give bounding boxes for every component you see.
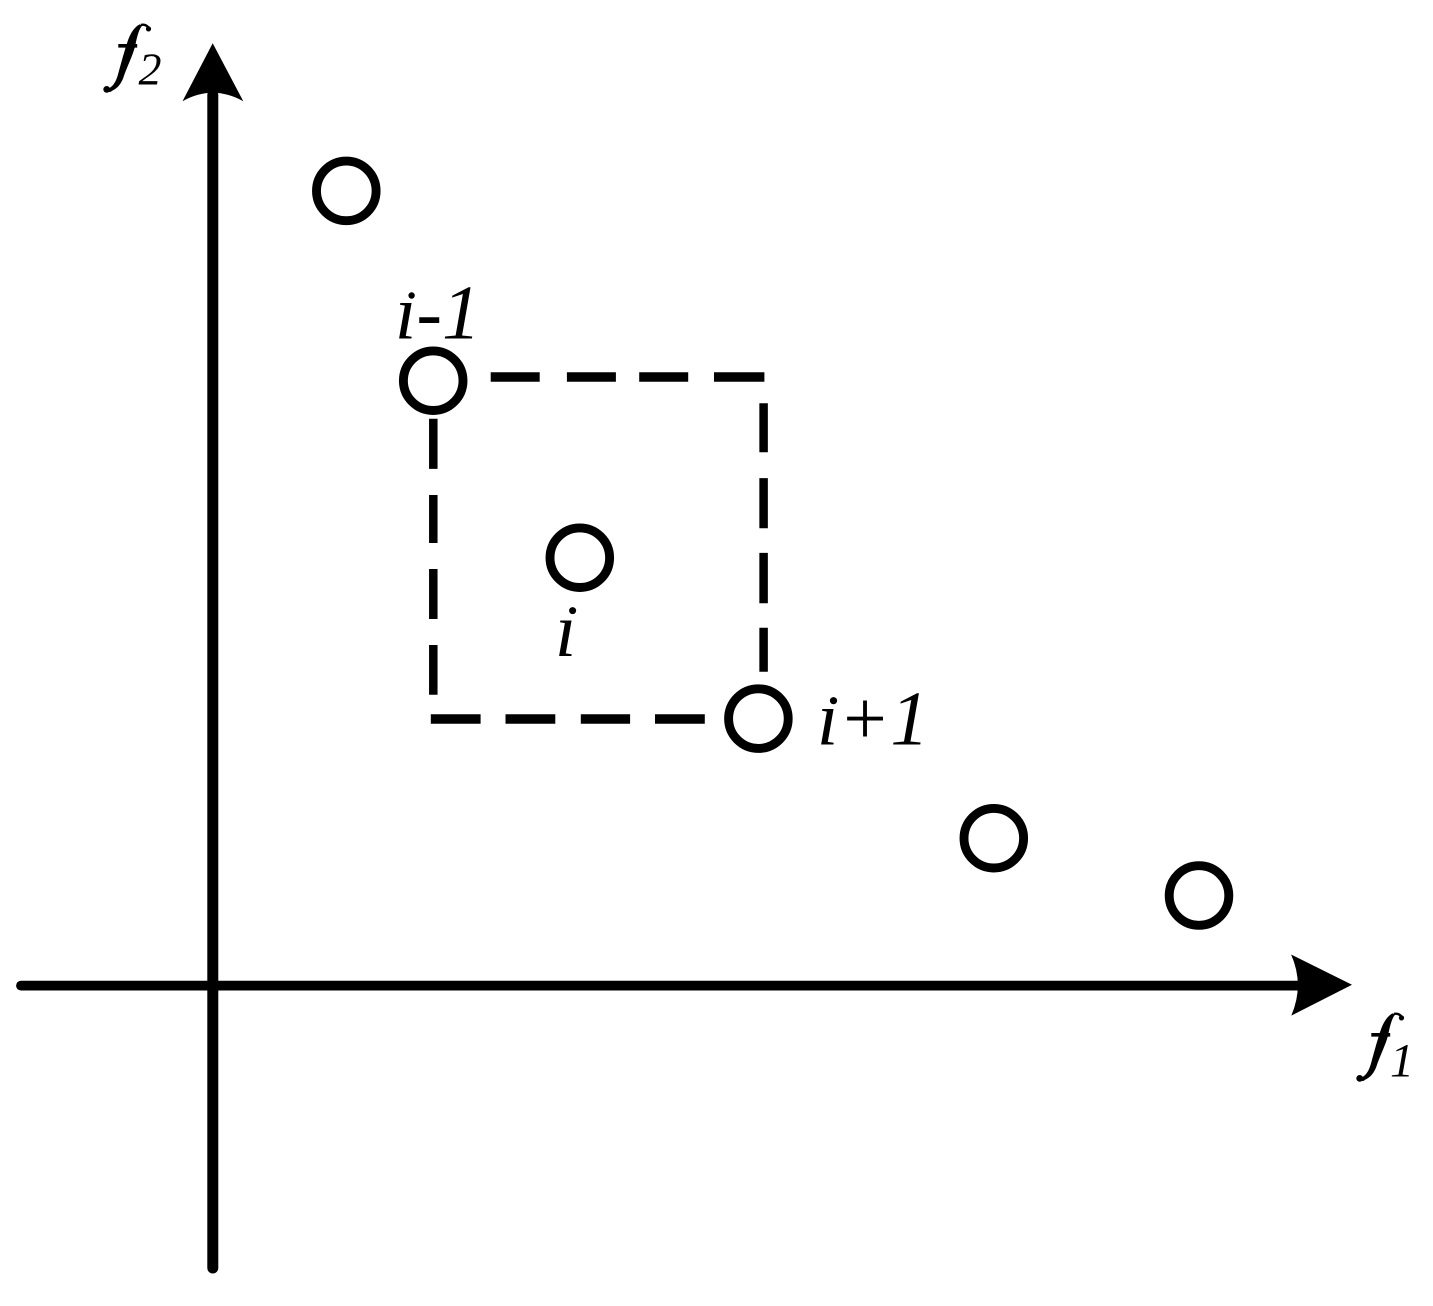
- point i-1: [403, 351, 463, 411]
- dashed rectangle left edge: [429, 419, 438, 695]
- y-axis arrowhead: [183, 43, 244, 101]
- label f1: [1356, 1013, 1404, 1081]
- y-axis: [207, 95, 218, 1268]
- point i: [550, 528, 610, 588]
- point i+1: [729, 689, 789, 749]
- x-axis arrowhead: [1291, 955, 1352, 1016]
- svg-text:2: 2: [139, 43, 162, 94]
- dashed rectangle right edge: [759, 403, 768, 672]
- svg-text:1: 1: [1390, 1034, 1414, 1087]
- svg-text:ı-1: ı-1: [395, 270, 481, 356]
- svg-text:ı: ı: [555, 587, 576, 673]
- x-axis: [21, 981, 1300, 991]
- label f2: [103, 24, 151, 92]
- point circle 6: [1169, 866, 1229, 926]
- svg-text:ı+1: ı+1: [817, 676, 929, 762]
- point circle 5: [964, 808, 1024, 868]
- point circle 1: [317, 161, 377, 221]
- dashed rectangle bottom edge: [431, 714, 705, 724]
- dashed rectangle top edge: [491, 372, 765, 382]
